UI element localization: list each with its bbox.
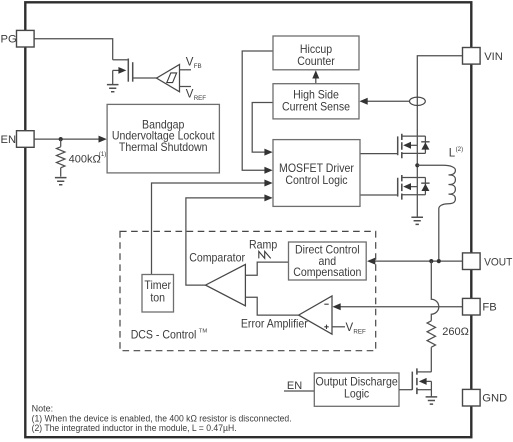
node EN junction (59, 137, 63, 141)
U3 plus sign (324, 325, 328, 329)
svg-text:(2) The integrated inductor in: (2) The integrated inductor in the modul… (32, 423, 237, 433)
op-amp U3 error amplifier (299, 296, 332, 334)
wire U1 VREF input (180, 86, 192, 88)
transistor Q1 PG open-drain (113, 59, 157, 85)
wire EN to Output Discharge Logic (284, 390, 314, 392)
pin VIN (463, 48, 481, 65)
wire timer ton to MOSFET driver input 3 (152, 183, 265, 275)
resistor R1 400k leads (60, 139, 62, 177)
block Bandgap UVLO Thermal Shutdown (107, 104, 219, 172)
ground below R1 (55, 178, 67, 185)
resistor R2 260 body (427, 321, 435, 347)
wire EN to Bandgap (34, 138, 100, 140)
wire FB to error amplifier (340, 306, 462, 308)
block Output Discharge Logic (314, 373, 399, 406)
op-amp U1 PG comparator with hysteresis (157, 65, 180, 92)
wire MOSFET driver output to Q3 gate (359, 194, 398, 196)
pin VOUT (463, 253, 481, 270)
block Timer ton (142, 275, 174, 313)
wire Hiccup Counter to MOSFET driver input 2 (242, 51, 273, 170)
svg-text:EN: EN (1, 134, 17, 146)
svg-text:FB: FB (194, 63, 202, 70)
svg-text:Ramp: Ramp (249, 237, 277, 251)
block Direct Control and Compensation (289, 242, 367, 280)
block MOSFET Driver Control Logic (273, 140, 360, 207)
inductor L1 0.47uH coil (417, 165, 455, 261)
ground below Q3 (411, 217, 423, 224)
svg-text:(1): (1) (99, 151, 107, 158)
wire VIN rail (417, 56, 462, 217)
node switch node dot (415, 163, 419, 167)
svg-text:Comparator: Comparator (189, 250, 245, 264)
wire U3 VREF input (332, 326, 345, 328)
ground below Q1 (107, 85, 119, 92)
svg-text:VIN: VIN (484, 51, 503, 63)
svg-text:V: V (186, 56, 194, 68)
svg-text:Note:: Note: (32, 404, 54, 414)
svg-text:Control Logic: Control Logic (285, 173, 347, 187)
svg-text:Counter: Counter (297, 54, 335, 68)
svg-text:Logic: Logic (344, 387, 369, 401)
svg-text:V: V (186, 89, 194, 101)
wire comparator output to MOSFET driver input 4 (186, 198, 265, 285)
transistor Q3 low-side (398, 175, 430, 200)
wire VOUT junction down with hop over FB (431, 261, 439, 372)
svg-text:Current Sense: Current Sense (282, 99, 350, 113)
block Hiccup Counter (273, 36, 359, 70)
wire VOUT to Direct Control (375, 260, 463, 262)
ramp sawtooth glyph (259, 251, 271, 258)
svg-text:260Ω: 260Ω (442, 326, 469, 338)
resistor R1 400k body (57, 147, 65, 168)
svg-text:Compensation: Compensation (293, 265, 361, 279)
svg-text:DCS - Control: DCS - Control (131, 327, 197, 341)
svg-text:REF: REF (194, 95, 207, 102)
node VOUT junction 1 (429, 259, 433, 263)
transistor Q2 high-side (398, 134, 430, 159)
svg-text:EN: EN (287, 380, 302, 392)
wire U1 VFB input (180, 69, 192, 71)
wire High Side Current Sense to MOSFET driver input 1 (252, 103, 273, 153)
svg-text:TM: TM (199, 328, 208, 334)
U3 minus sign (324, 303, 328, 305)
wire High Side Current Sense to Hiccup Counter (up arrow) (315, 78, 317, 84)
wire PG to Q1 drain (34, 39, 113, 60)
svg-text:REF: REF (353, 328, 366, 335)
pin GND (463, 389, 481, 406)
svg-text:Error Amplifier: Error Amplifier (241, 316, 308, 330)
svg-text:VOUT: VOUT (484, 256, 512, 268)
wire error amplifier output to comparator input (245, 297, 298, 315)
block High Side Current Sense (273, 84, 359, 119)
svg-text:400kΩ: 400kΩ (69, 153, 101, 165)
node VOUT junction 2 (437, 259, 441, 263)
svg-text:Thermal Shutdown: Thermal Shutdown (119, 140, 208, 154)
pin EN (17, 131, 35, 148)
transistor Q4 output discharge (399, 368, 431, 396)
wire MOSFET driver output to Q2 gate (359, 153, 398, 155)
svg-text:GND: GND (482, 393, 507, 405)
op-amp U2 comparator (206, 264, 246, 305)
pin FB (463, 298, 481, 315)
svg-text:(2): (2) (456, 146, 464, 153)
current sense ellipse (410, 97, 426, 105)
wire current sense ellipse to High Side Current Sense (368, 100, 410, 102)
svg-text:(1) When the device is enabled: (1) When the device is enabled, the 400 … (32, 413, 292, 423)
svg-text:ton: ton (150, 290, 165, 304)
pin PG (17, 30, 35, 47)
svg-text:PG: PG (1, 34, 17, 46)
svg-text:V: V (346, 322, 354, 334)
block DCS-Control dashed boundary (120, 231, 376, 350)
wire comparator ramp input (245, 262, 288, 275)
svg-text:FB: FB (482, 302, 496, 314)
ground below Q4 (426, 397, 438, 404)
